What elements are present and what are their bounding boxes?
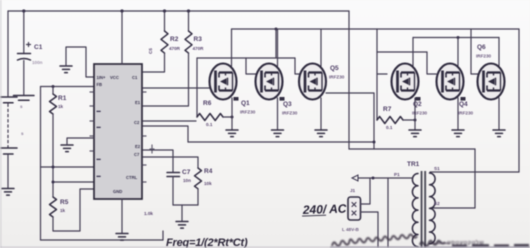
- wire: Q5 gate drop: [295, 58, 302, 74]
- svg-text:VCC: VCC: [110, 75, 119, 80]
- wire: Q3 source drop: [277, 98, 279, 130]
- capacitor C1 (polarized): [18, 43, 43, 66]
- wire: mid rail (drive): [188, 141, 374, 143]
- wire: gate sub-rail left bank: [197, 57, 295, 59]
- wire: Q6 source drop: [498, 98, 500, 130]
- wire: drop from primary lead to bottom edge: [387, 178, 389, 248]
- node: junction drain rail: [457, 36, 460, 39]
- wire: R3 bottom to IC pin: [143, 53, 189, 106]
- svg-text:C5: C5: [148, 48, 153, 54]
- wire: upper distribution rail: [232, 28, 520, 30]
- connector arrow: [352, 175, 358, 181]
- wire: battery bottom lead: [7, 155, 9, 188]
- transistor Q4: [437, 64, 466, 101]
- wire: bottom rail end hook: [162, 231, 164, 240]
- wire: ground hook to IC pin 1: [66, 47, 94, 77]
- node: junction R7 / Q2 source: [414, 119, 417, 122]
- wire: Q4 gate drop: [427, 52, 436, 74]
- wire: RC center drop: [181, 205, 183, 221]
- resistor R4: [195, 168, 213, 189]
- resistor R7: [377, 106, 415, 130]
- scan edge artifacts: [0, 0, 2, 248]
- node: junction VCC on top rail: [120, 9, 123, 12]
- wire: Q1 drain riser: [231, 29, 233, 66]
- wire: R6 feed riser: [196, 58, 198, 117]
- svg-text:Q5: Q5: [330, 65, 339, 72]
- svg-text:Q4: Q4: [459, 101, 468, 108]
- svg-text:C2: C2: [134, 120, 140, 125]
- svg-text:S1: S1: [434, 166, 440, 171]
- svg-text:IRF230: IRF230: [412, 111, 428, 116]
- wire: top supply rail: [8, 10, 349, 12]
- node: junction R3 on top rail: [187, 9, 190, 12]
- wire: right edge drop to transformer secondary: [518, 29, 520, 172]
- transistor Q5: [299, 64, 326, 100]
- watermark script bottom right: [332, 234, 529, 247]
- wire: IC pin to R6 top: [143, 120, 196, 122]
- svg-text:R1: R1: [58, 95, 67, 102]
- svg-text:P1: P1: [394, 172, 400, 177]
- svg-text:E1: E1: [135, 100, 141, 105]
- wire: feed from upper rail to gate sub-rail: [376, 29, 378, 52]
- wire: IC pin to R4 leg: [143, 157, 198, 168]
- svg-text:C1: C1: [34, 44, 43, 51]
- resistor R2: [161, 11, 181, 53]
- svg-text:IRF230: IRF230: [476, 54, 492, 59]
- svg-text:R6: R6: [203, 100, 212, 107]
- ground: Q6 source: [493, 130, 505, 137]
- node: junction on upper rail: [275, 28, 278, 31]
- wire: right bank drain rail: [413, 37, 499, 39]
- wire: riser joining Q5 tie to mid rails: [373, 93, 375, 149]
- resistor R5: [50, 197, 69, 217]
- svg-text:TR1: TR1: [407, 161, 420, 168]
- svg-text:1k: 1k: [60, 208, 66, 213]
- wire: Q3 gate drop: [246, 58, 257, 74]
- ground: Q2 source: [409, 130, 421, 137]
- wire: Q6 drain riser: [498, 38, 500, 67]
- wire: primary top lead to J1 arrow: [358, 177, 413, 179]
- wire: pin 2 lead to left bus: [41, 86, 95, 88]
- IC U1 body: [90, 64, 146, 199]
- wire: bottom rail: [41, 239, 164, 241]
- svg-text:IRF230: IRF230: [458, 111, 474, 116]
- wire: C7 bottom lead: [172, 177, 174, 206]
- wire: R5 bottom loop to IC lower-left pin: [53, 189, 94, 231]
- wire: C1 top lead: [23, 11, 25, 54]
- svg-text:FB: FB: [97, 82, 103, 87]
- wire: Q6 gate drop: [471, 29, 478, 74]
- wire: J1 lower lead to bottom edge: [361, 212, 379, 248]
- transistor Q3: [256, 64, 285, 101]
- wire: feed to gate sub-rail: [275, 29, 277, 58]
- svg-text:C7: C7: [182, 169, 191, 176]
- wire: right gate sub-rail: [377, 51, 427, 53]
- wire: C1 bottom lead: [23, 61, 25, 96]
- svg-text:R2: R2: [170, 36, 179, 43]
- svg-text:C7: C7: [134, 152, 140, 157]
- svg-text:R3: R3: [194, 36, 203, 43]
- svg-text:470R: 470R: [193, 46, 205, 51]
- svg-text:IRFZ30: IRFZ30: [329, 75, 345, 80]
- wire: drop to transformer tap: [474, 149, 476, 208]
- svg-text:s: s: [21, 131, 24, 136]
- node: junction at (53,182): [52, 181, 55, 184]
- ground: near IC pin 1: [60, 66, 72, 73]
- svg-text:Q1: Q1: [241, 100, 250, 107]
- transformer TR1: [394, 161, 440, 248]
- wire: Q4 drain riser: [457, 38, 459, 67]
- svg-text:10n: 10n: [183, 178, 191, 183]
- wire: pin lead y167: [41, 166, 95, 168]
- node: junction at (53,167): [52, 166, 55, 169]
- wire: gate rail from IC to Q1: [143, 87, 210, 89]
- pin stubs: [90, 92, 146, 182]
- wire: IC pin to C7 leg: [143, 150, 173, 172]
- wire: left drop from top rail to battery: [7, 11, 9, 96]
- resistor R3: [185, 11, 204, 53]
- svg-text:L 48V-B: L 48V-B: [342, 227, 359, 232]
- svg-text:100n: 100n: [32, 60, 43, 65]
- node: small tick near IC right: [150, 145, 154, 153]
- wire: Q5 drain riser: [320, 29, 322, 66]
- wire: mid rail jog to transformer: [349, 148, 475, 150]
- wire: VCC lead from top rail: [121, 11, 123, 64]
- wire: mid-left ground to IC pin: [67, 138, 94, 145]
- wire: R1 bottom down to R5: [52, 114, 54, 197]
- capacitor C7: [167, 169, 191, 183]
- node: junction on top rail at C1 branch: [22, 9, 25, 12]
- svg-text:0.1: 0.1: [206, 122, 213, 127]
- wire: Q2 drain riser: [412, 38, 414, 67]
- ground: Q3 source: [272, 130, 284, 137]
- node: junction R1 top: [52, 85, 55, 88]
- svg-text:CTRL: CTRL: [126, 175, 138, 180]
- wire: Q2 gate tap: [377, 73, 387, 75]
- svg-text:Q6: Q6: [477, 44, 486, 51]
- svg-text:IRFZ30: IRFZ30: [240, 110, 256, 115]
- svg-text:IRFZ30: IRFZ30: [282, 111, 298, 116]
- ground: under IC: [116, 234, 128, 241]
- svg-text:1.0k: 1.0k: [144, 211, 153, 216]
- wire: Q5 source drop: [320, 98, 322, 130]
- wire: J1 upper lead: [361, 178, 371, 204]
- svg-text:0.1: 0.1: [386, 125, 393, 130]
- wire: pin lead y182: [53, 181, 94, 183]
- ground: Q5 source: [315, 130, 327, 137]
- svg-text:J1: J1: [350, 188, 356, 193]
- wire: Q1 source drop: [231, 98, 233, 130]
- wire: Q3 drain riser: [277, 29, 279, 66]
- ground: Q4 source: [452, 130, 464, 137]
- node: junction mid rail: [373, 141, 376, 144]
- svg-text:R7: R7: [383, 106, 392, 113]
- wire: Q4 source drop: [457, 98, 459, 130]
- node: junction R2 on top rail: [163, 9, 166, 12]
- wire: Q5 right tie: [326, 92, 374, 94]
- wire: R4 bottom lead: [197, 189, 199, 205]
- svg-text:Q3: Q3: [283, 101, 292, 108]
- node: junction R6 / Q1 source: [231, 116, 234, 119]
- svg-text:470R: 470R: [169, 46, 181, 51]
- transistor Q6: [478, 64, 505, 100]
- svg-text:R4: R4: [204, 168, 213, 175]
- ground: RC network: [176, 222, 188, 229]
- wire: right drop from top rail down to mid rail: [348, 11, 350, 149]
- svg-text:R5: R5: [60, 199, 69, 206]
- wire: IC pin y126 to mid-rail riser: [143, 126, 188, 142]
- wire: Q2 source drop: [414, 98, 416, 130]
- battery B1 (stacked cells): [1, 97, 25, 154]
- wire: secondary top lead: [430, 171, 519, 173]
- svg-text:GND: GND: [113, 189, 122, 194]
- svg-text:S2: S2: [434, 201, 440, 206]
- svg-text:1IN+: 1IN+: [97, 75, 107, 80]
- wire: outer left vertical bus: [40, 87, 42, 241]
- resistor R6: [197, 100, 232, 127]
- wire: RC bottom join: [173, 204, 198, 206]
- wire: IC ground lead: [121, 199, 123, 233]
- resistor R1: [50, 87, 67, 115]
- connector J1: [348, 197, 361, 220]
- transistor Q2: [392, 64, 421, 101]
- node: junction on primary lead: [372, 177, 375, 180]
- svg-text:C1: C1: [132, 75, 138, 80]
- svg-text:Freq=1/(2*Rt*Ct): Freq=1/(2*Rt*Ct): [166, 237, 248, 248]
- svg-text:Q2: Q2: [413, 101, 422, 108]
- ground: under battery B1: [2, 189, 14, 196]
- wire: Q2 gate / R7 riser: [376, 52, 378, 120]
- svg-text:1k: 1k: [58, 104, 64, 109]
- battery cell B2: [14, 96, 35, 110]
- svg-text:10k: 10k: [204, 181, 212, 186]
- wire: tap into right winding: [432, 207, 475, 209]
- wire: R2 bottom to IC pin: [143, 53, 165, 72]
- svg-text:240/ AC: 240/ AC: [302, 202, 347, 218]
- ground: mid-left at IC: [61, 145, 73, 152]
- ground: Q1 source: [226, 130, 238, 137]
- svg-text:E2: E2: [135, 144, 141, 149]
- svg-text:s: s: [20, 104, 23, 109]
- label 240/AC: [302, 202, 347, 218]
- transistor Q1: [210, 64, 239, 101]
